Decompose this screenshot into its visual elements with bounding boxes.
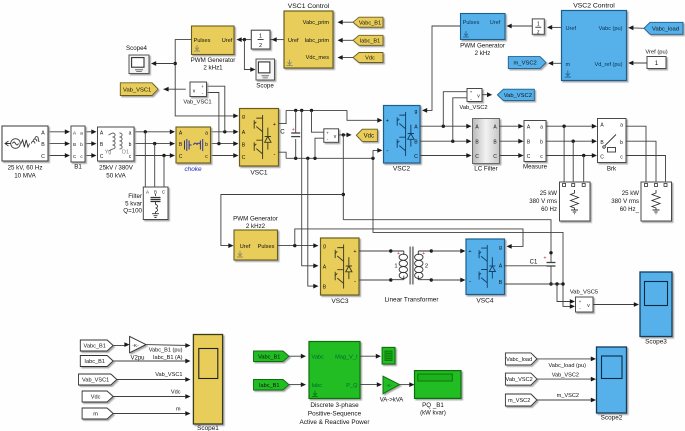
- svg-text:1: 1: [259, 33, 262, 39]
- svg-text:m: m: [176, 407, 181, 413]
- svg-text:C: C: [475, 154, 479, 160]
- svg-text:+: +: [397, 251, 400, 257]
- svg-text:25 kW: 25 kW: [540, 190, 558, 197]
- svg-text:g: g: [323, 244, 326, 250]
- svg-text:-: -: [469, 279, 471, 285]
- svg-text:1: 1: [655, 60, 659, 67]
- svg-text:A: A: [414, 125, 418, 131]
- svg-text:C: C: [242, 155, 246, 161]
- svg-text:Vab_VSC2: Vab_VSC2: [504, 93, 532, 99]
- svg-text:Vabc_B1: Vabc_B1: [258, 354, 280, 360]
- svg-text:z: z: [537, 29, 540, 35]
- svg-text:Iabc_prim: Iabc_prim: [304, 38, 329, 44]
- svg-text:Measure: Measure: [523, 164, 548, 171]
- svg-text:Iabc: Iabc: [312, 383, 323, 389]
- svg-text:2 kHz: 2 kHz: [475, 50, 491, 57]
- svg-text:A: A: [41, 130, 45, 136]
- svg-text:Active & Reactive Power: Active & Reactive Power: [300, 419, 371, 426]
- svg-text:Q=100: Q=100: [123, 208, 142, 215]
- svg-text:choke: choke: [184, 166, 201, 173]
- svg-text:b: b: [129, 142, 132, 148]
- svg-text:Vab_VSC2: Vab_VSC2: [552, 372, 579, 378]
- svg-text:Positive-Sequence: Positive-Sequence: [308, 411, 362, 418]
- svg-text:5 kvar: 5 kvar: [125, 200, 142, 207]
- svg-text:PWM Generator: PWM Generator: [233, 216, 278, 223]
- svg-text:Discrete 3-phase: Discrete 3-phase: [310, 402, 359, 409]
- svg-text:P_Q: P_Q: [346, 383, 358, 389]
- svg-text:Vdc: Vdc: [364, 133, 374, 139]
- svg-text:+: +: [468, 249, 471, 255]
- svg-text:Vabc: Vabc: [312, 354, 325, 360]
- svg-text:-K-: -K-: [132, 343, 139, 349]
- svg-text:+: +: [422, 251, 425, 257]
- svg-text:VSC1 Control: VSC1 Control: [288, 3, 330, 10]
- svg-text:Pulses: Pulses: [194, 38, 211, 44]
- svg-text:Filter: Filter: [128, 193, 142, 200]
- svg-text:Iabc_B1: Iabc_B1: [360, 38, 381, 44]
- svg-text:C: C: [280, 129, 285, 136]
- svg-text:C1: C1: [530, 260, 538, 266]
- svg-text:m: m: [566, 62, 571, 68]
- svg-text:-: -: [274, 152, 276, 158]
- svg-text:Vabc (pu): Vabc (pu): [599, 26, 623, 32]
- svg-text:C: C: [179, 154, 183, 160]
- svg-text:-: -: [354, 279, 356, 285]
- svg-text:PWM Generator: PWM Generator: [460, 43, 505, 50]
- svg-text:b: b: [205, 142, 208, 148]
- svg-text:-: -: [387, 149, 389, 155]
- svg-text:+: +: [326, 130, 329, 135]
- svg-text:60 Hz: 60 Hz: [541, 206, 557, 213]
- svg-text:a: a: [80, 130, 83, 135]
- svg-text:b: b: [540, 139, 543, 145]
- svg-text:380 V rms: 380 V rms: [611, 198, 639, 205]
- svg-text:Pulses: Pulses: [258, 244, 275, 250]
- svg-text:g: g: [499, 245, 502, 251]
- svg-text:Vab_VSC1: Vab_VSC1: [82, 378, 109, 384]
- svg-text:Vdc_mes: Vdc_mes: [306, 55, 330, 61]
- svg-text:Vabc_prim: Vabc_prim: [303, 20, 330, 26]
- svg-text:Brk: Brk: [607, 166, 617, 173]
- svg-text:A: A: [242, 130, 246, 136]
- svg-text:VSC4: VSC4: [476, 298, 494, 305]
- svg-text:Yg: Yg: [105, 150, 112, 156]
- svg-text:+: +: [386, 119, 389, 125]
- svg-text:25kV / 380V: 25kV / 380V: [99, 165, 134, 172]
- svg-text:C: C: [414, 154, 418, 160]
- svg-text:Vdc: Vdc: [171, 390, 181, 396]
- svg-text:B: B: [323, 285, 327, 291]
- svg-text:Scope4: Scope4: [126, 45, 148, 52]
- svg-text:Scope1: Scope1: [197, 425, 219, 431]
- svg-text:A: A: [323, 264, 327, 270]
- svg-text:Vdc: Vdc: [365, 56, 375, 62]
- svg-text:VSC1: VSC1: [250, 170, 268, 177]
- svg-text:+: +: [353, 249, 356, 255]
- svg-text:Iabc_B1: Iabc_B1: [84, 359, 105, 365]
- svg-text:B: B: [414, 139, 418, 145]
- svg-text:Scope: Scope: [256, 83, 274, 90]
- svg-text:a: a: [129, 131, 132, 137]
- svg-text:Linear Transformer: Linear Transformer: [385, 297, 440, 304]
- svg-text:D1: D1: [122, 150, 129, 156]
- svg-text:Pulses: Pulses: [463, 20, 480, 26]
- svg-text:b: b: [620, 140, 623, 146]
- svg-text:C: C: [600, 154, 604, 160]
- svg-text:m_VSC2: m_VSC2: [508, 398, 530, 404]
- svg-text:B: B: [154, 189, 157, 194]
- svg-text:B: B: [73, 142, 76, 147]
- svg-text:a: a: [540, 125, 543, 131]
- svg-text:C: C: [100, 154, 104, 160]
- svg-text:Scope2: Scope2: [601, 415, 623, 422]
- svg-text:B1: B1: [74, 164, 82, 171]
- svg-text:PWM Generator: PWM Generator: [191, 57, 236, 64]
- svg-text:Vdc: Vdc: [91, 395, 101, 401]
- svg-text:2: 2: [425, 263, 428, 269]
- svg-text:a: a: [620, 123, 623, 129]
- svg-text:C: C: [493, 154, 497, 160]
- svg-text:+: +: [470, 90, 473, 95]
- svg-text:60 Hz_: 60 Hz_: [620, 206, 640, 213]
- svg-text:Vabc_load: Vabc_load: [652, 26, 679, 32]
- svg-text:Uref: Uref: [288, 38, 299, 44]
- svg-text:Vab_VSC2: Vab_VSC2: [506, 377, 533, 383]
- svg-text:10 MVA: 10 MVA: [14, 173, 36, 180]
- svg-text:Uref: Uref: [240, 244, 251, 250]
- svg-text:50 kVA: 50 kVA: [106, 173, 126, 180]
- svg-text:1: 1: [537, 21, 540, 27]
- svg-text:VSC2 Control: VSC2 Control: [573, 3, 615, 10]
- svg-text:Vd_ref (pu): Vd_ref (pu): [595, 62, 623, 68]
- svg-text:1: 1: [394, 263, 397, 269]
- svg-text:Uref: Uref: [490, 20, 501, 26]
- svg-text:+: +: [273, 122, 276, 128]
- svg-text:LC Filter: LC Filter: [474, 166, 497, 173]
- svg-text:380 V rms: 380 V rms: [529, 198, 557, 205]
- svg-text:+: +: [292, 127, 295, 133]
- svg-text:b: b: [80, 142, 83, 147]
- svg-text:A: A: [499, 264, 503, 270]
- svg-text:m_VSC2: m_VSC2: [514, 61, 537, 67]
- svg-text:2 kHz1: 2 kHz1: [203, 65, 223, 72]
- svg-text:C: C: [41, 154, 45, 160]
- svg-text:m_VSC2: m_VSC2: [557, 393, 579, 399]
- svg-text:B: B: [499, 280, 503, 286]
- svg-text:VSC2: VSC2: [393, 166, 411, 173]
- svg-text:C: C: [527, 154, 531, 160]
- svg-text:25 kW: 25 kW: [622, 190, 640, 197]
- svg-text:Vabc_B1: Vabc_B1: [359, 20, 381, 26]
- svg-text:Mag_V_I: Mag_V_I: [335, 354, 358, 360]
- svg-text:Iabc_B1: Iabc_B1: [259, 383, 280, 389]
- svg-text:Vref (pu): Vref (pu): [645, 50, 667, 56]
- svg-text:C: C: [162, 189, 165, 194]
- svg-text:a: a: [205, 130, 208, 136]
- svg-text:+: +: [579, 299, 582, 304]
- svg-text:Vabc_B1: Vabc_B1: [84, 344, 106, 350]
- svg-text:Vab_VSC2: Vab_VSC2: [459, 105, 487, 111]
- svg-text:PQ _B1: PQ _B1: [422, 402, 444, 409]
- svg-text:-K-: -K-: [386, 383, 393, 388]
- svg-text:Vab_VSC1: Vab_VSC1: [123, 87, 151, 93]
- svg-text:+: +: [201, 84, 204, 89]
- svg-text:2 kHz2: 2 kHz2: [246, 223, 266, 230]
- svg-text:A: A: [146, 189, 149, 194]
- svg-text:+: +: [544, 256, 547, 262]
- svg-text:VSC3: VSC3: [331, 298, 349, 305]
- svg-text:Vab_VSC1: Vab_VSC1: [155, 372, 182, 378]
- svg-text:B: B: [41, 142, 45, 148]
- svg-text:Vabc_load: Vabc_load: [506, 357, 532, 363]
- svg-text:VA->kVA: VA->kVA: [380, 398, 404, 404]
- svg-text:g: g: [242, 114, 245, 120]
- svg-text:2: 2: [259, 43, 262, 49]
- svg-text:Vab_VSC5: Vab_VSC5: [570, 290, 598, 296]
- svg-text:Vabc_B1 (pu): Vabc_B1 (pu): [149, 348, 183, 354]
- svg-text:Iabc_B1 (A): Iabc_B1 (A): [153, 355, 183, 361]
- svg-text:Scope3: Scope3: [645, 339, 667, 346]
- svg-text:Vabc_load (pu): Vabc_load (pu): [548, 363, 586, 369]
- svg-text:g: g: [415, 109, 418, 115]
- svg-text:B: B: [242, 143, 246, 149]
- svg-text:Uref: Uref: [222, 38, 233, 44]
- svg-text:(kW kvar): (kW kvar): [420, 411, 446, 417]
- svg-text:25 kV, 60 Hz: 25 kV, 60 Hz: [8, 165, 43, 172]
- svg-text:Uref: Uref: [566, 26, 577, 32]
- svg-text:m: m: [93, 412, 98, 418]
- svg-text:Vab_VSC1: Vab_VSC1: [183, 100, 211, 106]
